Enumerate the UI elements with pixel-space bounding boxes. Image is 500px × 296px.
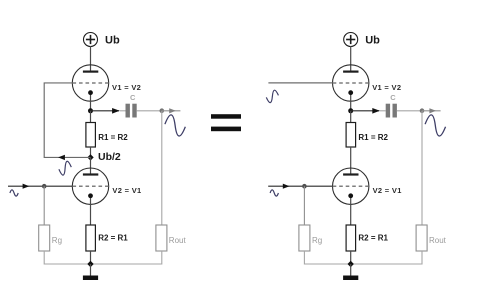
svg-text:Ub: Ub: [365, 34, 380, 46]
node input/Rg junction (left): [42, 184, 47, 189]
grid input wire V1 (right): [268, 82, 332, 84]
wire R2 to bus (left): [90, 251, 92, 264]
input signal sine (right): [270, 190, 278, 196]
svg-text:R2 = R1: R2 = R1: [98, 233, 128, 242]
svg-text:Rg: Rg: [52, 236, 62, 245]
resistor R2 (right): [346, 225, 356, 251]
svg-text:R1 = R2: R1 = R2: [98, 133, 128, 142]
wire R1 to node Ub/2 (left): [90, 147, 92, 157]
svg-text:V2 = V1: V2 = V1: [112, 186, 141, 195]
resistor Rg (left): [39, 225, 50, 251]
resistor Rg (right): [299, 225, 310, 251]
wire output node down to Rout (left): [161, 111, 163, 225]
svg-text:Ub: Ub: [105, 34, 120, 46]
wire node to coupling cap (left): [91, 110, 120, 112]
node cathode/output junction (right): [348, 108, 353, 113]
wire input node to Rg (right): [303, 186, 305, 225]
triode V1 (right): [333, 65, 369, 101]
ground bus (right): [304, 251, 422, 264]
wire arrow to cap (left): [120, 110, 126, 112]
svg-text:Ub/2: Ub/2: [98, 151, 121, 163]
wire supply to V1 anode (right): [350, 46, 352, 71]
node input/Rg junction (right): [302, 184, 307, 189]
ground (right): [343, 264, 358, 280]
node output (right): [420, 108, 425, 113]
feedback direction arrow (left): [58, 155, 65, 160]
wire arrow to cap (right): [380, 110, 386, 112]
output arrow and stub (left): [162, 110, 181, 112]
ground (left): [83, 264, 98, 280]
node ground junction (right): [348, 261, 354, 267]
resistor R2 (left): [86, 225, 96, 251]
feedback wire Ub/2 to V1 grid (left): [44, 83, 90, 157]
svg-text:V1 = V2: V1 = V2: [112, 83, 141, 92]
svg-text:V1 = V2: V1 = V2: [372, 83, 401, 92]
ground bus (left): [44, 251, 162, 264]
node ground junction (left): [87, 261, 93, 267]
wire V2 cathode to R2 (right): [350, 198, 352, 225]
output signal sine (right): [424, 114, 447, 136]
triode V2 (left): [72, 168, 108, 204]
input wire (right): [268, 185, 332, 187]
wire V2 cathode to R2 (left): [90, 198, 92, 225]
wire cap to output node (right): [397, 110, 422, 112]
capacitor C (right): [386, 104, 397, 118]
wire V1 cathode to output node (right): [350, 95, 352, 111]
node output (left): [160, 108, 165, 113]
svg-text:R1 = R2: R1 = R2: [358, 133, 388, 142]
feedback signal sine (left): [58, 161, 73, 176]
supply symbol Ub (right): [344, 33, 358, 47]
signal direction arrow to cap (right): [372, 108, 380, 114]
input arrow (right): [283, 184, 290, 189]
wire Ub/2 to V2 anode (left): [90, 157, 92, 174]
wire node to coupling cap (right): [351, 110, 380, 112]
output signal sine (left): [164, 114, 187, 136]
wire node to R1 (right): [350, 111, 352, 123]
svg-text:V2 = V1: V2 = V1: [373, 186, 402, 195]
equals sign: [211, 114, 241, 131]
output arrow and stub (right): [422, 110, 441, 112]
wire cap to output node (left): [137, 110, 162, 112]
svg-text:Rg: Rg: [312, 236, 322, 245]
input signal sine (left): [10, 190, 18, 196]
resistor Rout (right): [416, 225, 427, 251]
wire R1 to V2 anode (right): [350, 147, 352, 174]
node cathode/output junction (left): [88, 108, 93, 113]
wire R2 to bus (right): [350, 251, 352, 264]
triode V2 (right): [333, 168, 369, 204]
wire V1 cathode to output node (left): [90, 95, 92, 111]
svg-text:C: C: [390, 93, 396, 102]
triode V1 (left): [72, 65, 108, 101]
input arrow (left): [23, 184, 30, 189]
svg-text:Rout: Rout: [169, 236, 187, 245]
resistor Rout (left): [156, 225, 167, 251]
svg-text:Rout: Rout: [429, 236, 447, 245]
resistor R1 (right): [346, 123, 356, 148]
capacitor C (left): [126, 104, 137, 118]
wire node to R1 (left): [90, 111, 92, 123]
svg-text:C: C: [130, 93, 136, 102]
resistor R1 (left): [86, 123, 96, 148]
wire output node down to Rout (right): [421, 111, 423, 225]
svg-text:R2 = R1: R2 = R1: [358, 233, 388, 242]
grid signal sine V1 (right): [265, 90, 279, 103]
wire input node to Rg (left): [43, 186, 45, 225]
node Ub/2 (left): [87, 154, 93, 160]
input wire (left): [8, 185, 72, 187]
wire supply to V1 anode (left): [90, 46, 92, 71]
signal direction arrow to cap (left): [112, 108, 120, 114]
supply symbol Ub (left): [84, 33, 98, 47]
